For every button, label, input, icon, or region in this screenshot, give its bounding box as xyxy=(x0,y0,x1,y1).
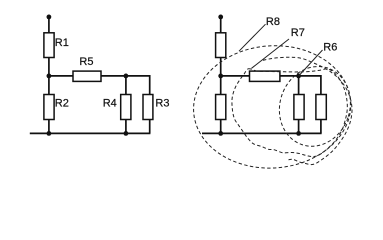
wire R5 to node B xyxy=(101,75,126,77)
node: right circuit top terminal xyxy=(218,15,223,20)
wire to node D xyxy=(280,75,299,77)
wire node A to R5 xyxy=(49,75,73,77)
wire node D to top-right corner xyxy=(299,76,321,95)
svg-text:R8: R8 xyxy=(266,16,280,28)
bottom rail wire xyxy=(30,132,151,134)
resistor (right parallel, unlabeled) xyxy=(316,95,326,120)
node A junction dot xyxy=(47,74,52,79)
bottom junction dot under R2 xyxy=(47,131,52,136)
wire node C to series resistor xyxy=(221,75,250,77)
svg-text:R7: R7 xyxy=(291,27,305,39)
loop R7 dashed ellipse outer (series + R6 group) xyxy=(263,57,352,164)
resistor (middle parallel, unlabeled) xyxy=(294,95,304,120)
wire middle resistor to bottom rail xyxy=(298,120,300,134)
wire top terminal to series resistor xyxy=(220,17,222,33)
svg-text:R5: R5 xyxy=(79,56,93,68)
wire right resistor to bottom corner xyxy=(320,120,322,134)
loop R8 dashed ellipse (R7 parallel with shunt resistor) xyxy=(190,41,355,174)
resistor R5 xyxy=(73,71,101,81)
resistor R1 xyxy=(44,33,54,58)
wire node B down to R4 xyxy=(125,76,127,95)
resistor R3 xyxy=(143,95,153,120)
loop R6 dashed ellipse (parallel pair) xyxy=(269,57,361,156)
wire top terminal to R1 xyxy=(48,17,50,33)
wire R3 to bottom corner xyxy=(149,120,151,134)
resistor R2 xyxy=(44,95,54,120)
svg-text:R1: R1 xyxy=(55,37,69,49)
resistor (left shunt, unlabeled) xyxy=(216,95,226,120)
leader line R7 xyxy=(252,39,290,68)
svg-text:R3: R3 xyxy=(155,97,169,109)
node B junction dot xyxy=(124,74,129,79)
wire node B to top-right corner xyxy=(126,76,150,95)
svg-text:R4: R4 xyxy=(103,97,117,109)
node C junction dot xyxy=(218,74,223,79)
wire R1 to node A xyxy=(48,58,50,77)
node: left circuit top terminal xyxy=(47,15,52,20)
wire R2 to bottom rail xyxy=(48,120,50,134)
bottom junction dot under left shunt xyxy=(218,131,223,136)
wire shunt resistor to bottom rail xyxy=(220,120,222,134)
wire R4 to bottom rail xyxy=(125,120,127,134)
bottom rail wire right circuit xyxy=(202,132,322,134)
loop R7 dashed ellipse inner xyxy=(232,69,347,157)
resistor (top series, unlabeled) xyxy=(216,33,226,58)
resistor (horizontal series, unlabeled) xyxy=(250,71,280,81)
leader line R6 xyxy=(299,50,323,76)
wire node A down to R2 xyxy=(48,76,50,95)
leader line R8 xyxy=(239,24,266,51)
wire node C down to shunt resistor xyxy=(220,76,222,95)
svg-text:R6: R6 xyxy=(323,41,337,53)
bottom junction dot under R4 xyxy=(124,131,129,136)
bottom junction dot under middle resistor xyxy=(296,131,301,136)
resistor R4 xyxy=(121,95,131,120)
wire node D down to middle resistor xyxy=(298,76,300,95)
svg-text:R2: R2 xyxy=(55,98,69,110)
wire down to node C xyxy=(220,58,222,77)
node D junction dot xyxy=(296,74,301,79)
